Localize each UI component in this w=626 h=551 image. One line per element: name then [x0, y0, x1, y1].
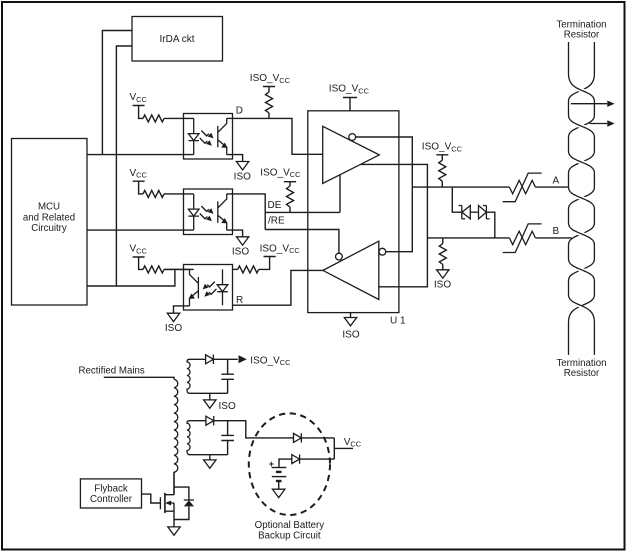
wire opto1 emitter to ISO ground [227, 155, 243, 162]
twisted pair wire 2 [569, 42, 595, 355]
resistor VCC series (opto 3) [143, 266, 194, 273]
wire battery to diode [279, 459, 334, 467]
capacitor secondary 2 [221, 421, 234, 455]
transformer secondary winding 2 [187, 421, 228, 455]
svg-text:IrDA ckt: IrDA ckt [159, 34, 194, 45]
power ISO_VCC pull-up on D [250, 73, 291, 92]
svg-text:Controller: Controller [90, 494, 133, 505]
optocoupler 1 light arrows [201, 131, 213, 139]
wire MCU DE control to opto2 [87, 229, 194, 231]
svg-text:Optional Battery: Optional Battery [255, 520, 325, 531]
ground ISO (secondary 1) [204, 393, 236, 412]
flyback controller box [80, 479, 141, 508]
wire secondary 2 to backup circuit [214, 421, 294, 438]
varistor on A [503, 173, 542, 202]
svg-text:ISO: ISO [342, 330, 359, 341]
resistor pull-up DE [287, 186, 294, 212]
svg-text:Backup Circuit: Backup Circuit [258, 531, 321, 542]
receiver enable bubble /RE [336, 253, 343, 260]
svg-text:Rectified Mains: Rectified Mains [79, 365, 145, 376]
label optional battery backup circuit [255, 520, 325, 541]
ground (secondary 2) [204, 455, 216, 469]
ground ISO (opto1) [236, 162, 248, 170]
transformer secondary winding 1 [187, 359, 228, 393]
optocoupler 2 LED [188, 194, 199, 230]
resistor B to ISO ground [442, 238, 444, 244]
svg-text:/RE: /RE [268, 216, 285, 227]
rectifier diode secondary 2 [206, 416, 214, 425]
twisted pair crossing 1 [572, 85, 592, 97]
wire bus B [427, 237, 571, 239]
svg-text:Resistor: Resistor [564, 368, 600, 379]
label termination resistor top [556, 19, 606, 40]
signal direction arrow 2 [590, 120, 615, 126]
svg-text:ISO: ISO [434, 280, 451, 291]
wire DE [265, 211, 340, 213]
optocoupler 3 phototransistor [189, 269, 199, 306]
optocoupler 1 LED [188, 118, 199, 154]
receiver amplifier triangle [323, 241, 379, 299]
ground ISO (B line) [434, 270, 451, 291]
wire opto3 emitter to ISO ground [174, 306, 190, 313]
svg-text:D: D [236, 106, 243, 117]
svg-text:ISO: ISO [234, 171, 251, 182]
receiver inverting input bubble [379, 248, 386, 255]
wire gate drive [142, 494, 161, 503]
svg-text:ISO: ISO [232, 246, 249, 257]
wire to ISO_VCC output [213, 358, 237, 360]
node VCC output [334, 437, 361, 459]
svg-text:Resistor: Resistor [564, 30, 600, 41]
dashed ellipse optional battery backup [249, 413, 330, 515]
wire opto2 collector to DE and /RE [227, 194, 266, 230]
svg-text:and Related: and Related [23, 212, 75, 223]
twisted pair crossing 3 [570, 156, 592, 168]
resistor pull-up A [439, 160, 446, 187]
varistor on B [503, 224, 542, 253]
optocoupler 2 (DE//RE channel) box [184, 189, 233, 235]
twisted pair crossing 7 [570, 300, 581, 306]
svg-text:B: B [553, 226, 560, 237]
power VCC (opto 2 side) [130, 168, 148, 194]
svg-text:+: + [269, 459, 274, 469]
twisted pair wire 1 [569, 42, 595, 355]
IrDA circuit block [132, 17, 223, 62]
twisted pair crossing 5 [570, 228, 592, 240]
optocoupler 2 light arrows [201, 206, 213, 214]
optocoupler 3 (R channel) box [184, 265, 233, 311]
wire /RE [265, 230, 339, 254]
optocoupler 2 phototransistor [218, 194, 228, 230]
svg-text:ISO: ISO [219, 401, 236, 412]
svg-text:Circuitry: Circuitry [31, 223, 67, 234]
power pin ISO_VCC (U1 top) [329, 84, 370, 111]
TVS diode 1 (cathode left) [459, 206, 471, 219]
resistor VCC series (opto 1) [143, 115, 194, 122]
diode battery to VCC [292, 454, 300, 463]
driver inverting output bubble [349, 134, 356, 141]
optocoupler 1 (D channel) box [184, 114, 233, 160]
label termination resistor bottom [556, 358, 606, 379]
power ISO_VCC (opto3 LED) [259, 243, 301, 269]
ground (battery) [273, 481, 285, 498]
svg-text:R: R [236, 295, 243, 306]
ground ISO (opto2) [236, 237, 248, 245]
wire MCU TX to opto1 [87, 154, 194, 156]
svg-text:A: A [553, 176, 560, 187]
optocoupler 3 LED [217, 269, 228, 305]
transistor Q1 MOSFET [160, 493, 174, 513]
resistor pull-up D [266, 92, 273, 118]
diode supply to VCC [294, 433, 302, 442]
body diode (pointing up) [184, 500, 194, 506]
wire source to ground [173, 503, 175, 527]
wire driver enable DE [339, 175, 341, 213]
ground ISO (opto3) [167, 313, 179, 321]
MCU block [12, 139, 88, 306]
transceiver U1 box [308, 111, 399, 313]
wire driver inverting output [356, 137, 413, 252]
wire opto3 collector to MCU node [164, 268, 190, 270]
rectifier diode secondary 1 [206, 355, 214, 364]
wire R from receiver output to opto3 LED [233, 270, 323, 305]
capacitor secondary 1 [221, 359, 234, 393]
battery [269, 459, 287, 481]
wire drain to transformer [173, 472, 175, 495]
wire diode to VCC node [301, 437, 334, 439]
power ISO_VCC pull-up on DE [260, 167, 301, 186]
driver amplifier triangle [323, 126, 380, 183]
twisted pair crossing 2 [570, 120, 592, 132]
svg-text:DE: DE [268, 200, 282, 211]
ground (MOSFET source) [168, 527, 180, 535]
power VCC (opto 3 side) [130, 244, 148, 270]
wire opto1 collector to D node [227, 118, 323, 154]
resistor opto3 LED series [233, 268, 238, 270]
wire driver noninverting output to B and receiver input [361, 164, 427, 286]
signal direction arrow 1 [571, 101, 615, 107]
output arrow ISO_VCC [239, 355, 292, 367]
optocoupler 3 light arrows [203, 282, 215, 290]
ground pin ISO (U1 bottom) [342, 313, 359, 341]
power ISO_VCC pull-up on A [422, 142, 463, 161]
wire rectified mains to transformer [104, 377, 174, 379]
twisted pair crossing 4 [570, 192, 592, 204]
wire IrDA to R line [116, 46, 132, 286]
svg-text:ISO: ISO [165, 323, 182, 334]
body diode loop [174, 487, 189, 519]
wire opto2 emitter to ISO ground [227, 230, 243, 237]
wire TVS to B [486, 212, 494, 238]
power VCC (opto 1 side) [130, 92, 148, 118]
twisted pair crossing 6 [570, 264, 592, 276]
wire bus A [412, 186, 568, 188]
svg-text:MCU: MCU [38, 202, 60, 213]
svg-text:U 1: U 1 [390, 315, 406, 326]
wire IrDA to D line [102, 31, 132, 155]
transformer primary winding [174, 379, 178, 494]
wire A to TVS diodes [452, 187, 462, 212]
resistor VCC series (opto 2) [143, 190, 194, 197]
wire MCU RX from opto3 [87, 269, 175, 286]
optocoupler 1 phototransistor [218, 118, 228, 154]
TVS diode 2 (cathode right) [470, 206, 489, 219]
